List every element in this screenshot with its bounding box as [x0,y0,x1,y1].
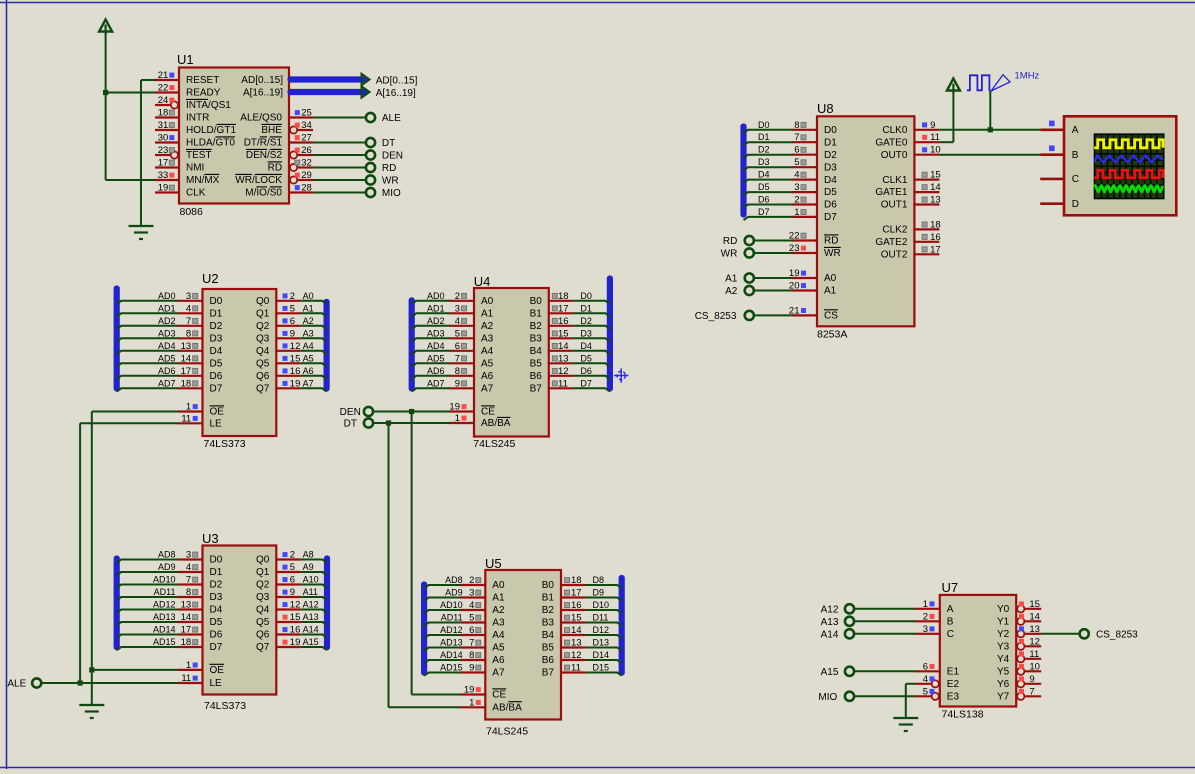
svg-text:9: 9 [455,378,460,389]
wire U3 Q5 to bus A13 [301,622,327,625]
wire AD9 bus to U3 D1 [117,572,179,575]
U2 pin 18 D7 (left) [158,378,223,394]
svg-text:A5: A5 [492,643,505,654]
svg-text:AD2: AD2 [158,316,176,326]
svg-text:E3: E3 [947,692,960,703]
svg-text:AD9: AD9 [445,588,463,598]
bus D0-D7 left of U8 [740,127,746,215]
U3 pin 14 D5 (left) [153,612,223,628]
U5 pin 16 B2 (right) [542,600,609,616]
svg-text:15: 15 [558,328,569,339]
svg-text:B2: B2 [530,321,543,332]
svg-text:8253A: 8253A [817,329,847,341]
U1 pin 19 CLK (left) [155,183,206,199]
svg-text:7: 7 [186,316,191,327]
svg-text:D2: D2 [210,321,223,332]
wire AD9 bus to U5 A1 [424,598,461,601]
wire VCC to U1 MN/MX pin 33 [106,179,155,181]
svg-text:6: 6 [455,341,460,352]
svg-text:Q3: Q3 [256,592,270,603]
svg-text:D0: D0 [210,296,223,307]
wire AD5 bus to U2 D5 [117,363,179,366]
svg-text:ALE/QS0: ALE/QS0 [240,113,282,124]
svg-text:18: 18 [571,575,582,586]
U5 pin 12 B6 (right) [542,650,609,666]
svg-text:D3: D3 [210,592,223,603]
wire AD2 bus to U2 D2 [117,326,179,329]
wire U5 B2 to bus D10 [586,610,622,613]
wire U2 Q7 to bus A7 [301,388,327,391]
svg-text:A1: A1 [303,303,314,313]
svg-text:A7: A7 [303,378,314,388]
oscilloscope body [1064,116,1176,215]
terminal A15 [821,667,854,678]
svg-text:AD11: AD11 [154,587,176,597]
U5 pin 4 A2 (left) [440,600,505,616]
U1 pin 21 RESET (left) [155,70,219,86]
wire AD2 bus to U4 A2 [412,326,450,329]
crosshair cursor marker [614,368,628,382]
svg-text:5: 5 [794,157,799,168]
svg-text:AD5: AD5 [158,353,176,363]
svg-text:A3: A3 [303,328,314,338]
svg-text:10: 10 [1029,661,1040,672]
net label D0 at U8 [758,120,770,130]
IC U4 (74LS245) body [474,288,549,437]
wire AD3 bus to U2 D3 [117,338,179,341]
U1 pin 22 READY (left) [155,83,221,99]
svg-text:A11: A11 [303,587,318,597]
wire AD8 bus to U5 A0 [424,585,461,588]
U2 pin 7 D2 (left) [158,316,223,332]
U3 pin 18 D7 (left) [153,637,223,653]
svg-text:12: 12 [558,366,569,377]
U1 pin 27 DT/R/S1 (right) [244,133,313,149]
U7 pin 3 C (left) [915,624,954,640]
U4 pin 19 CE (left) [449,402,495,418]
U7 pin 12 Y3 (right) [997,636,1041,652]
U8 value label 8253A [817,329,847,341]
U7 pin 4 E2 (left) [915,674,960,690]
svg-text:6: 6 [290,575,295,586]
wire U3 Q7 to bus A15 [301,647,327,650]
svg-text:AD7: AD7 [427,378,445,388]
svg-text:8: 8 [794,120,799,131]
svg-text:AD5: AD5 [427,353,445,363]
U3 pin 5 Q1 (right) [256,562,314,578]
svg-text:27: 27 [301,133,312,144]
wire VCC branch to U1 READY pin 22 [105,92,155,94]
svg-text:DT: DT [344,419,357,430]
svg-text:3: 3 [186,550,191,561]
svg-text:24: 24 [158,95,169,106]
U5 pin 5 A3 (left) [441,613,505,629]
svg-text:A2: A2 [303,316,314,326]
svg-text:Y6: Y6 [997,679,1010,690]
wire AD12 bus to U5 A4 [424,635,461,638]
svg-text:15: 15 [930,170,941,181]
svg-text:A0: A0 [492,580,505,591]
svg-text:CLK: CLK [186,188,206,199]
U8 pin 14 GATE1 (right) [875,182,940,198]
svg-text:11: 11 [930,132,940,143]
terminal ALE (bottom left) [7,678,41,689]
svg-text:A1: A1 [725,274,738,285]
svg-text:1: 1 [186,402,191,413]
svg-text:D6: D6 [758,195,770,205]
U3 pin 1 OE (left) [178,660,224,676]
svg-text:5: 5 [290,562,295,573]
wire RD terminal to U8 [754,240,792,242]
svg-text:A12: A12 [821,604,839,615]
svg-text:CLK2: CLK2 [882,225,907,236]
bus AD0-AD7 left of U2 [114,289,120,389]
U5 pin 2 A0 (left) [445,575,505,591]
svg-text:1: 1 [923,599,928,610]
U8 pin 23 WR (left) [789,243,841,259]
svg-text:D1: D1 [210,567,223,578]
svg-text:Q5: Q5 [256,359,270,370]
U3 pin 8 D3 (left) [154,587,223,603]
wire U5 B6 to bus D14 [586,660,622,663]
svg-text:17: 17 [158,158,169,169]
wire U4 B1 to bus D1 [573,313,610,316]
svg-text:U8: U8 [817,101,834,116]
wire D1 bus to U8 D1 [744,142,793,145]
svg-text:U3: U3 [202,531,219,546]
U3 pin 7 D2 (left) [153,575,223,591]
svg-text:B6: B6 [530,371,543,382]
wire U3 Q2 to bus A10 [301,585,327,588]
svg-text:RD: RD [268,163,282,174]
svg-text:Q0: Q0 [256,296,270,307]
svg-text:B2: B2 [542,605,555,616]
svg-text:A[16..19]: A[16..19] [243,88,283,99]
svg-text:A2: A2 [725,286,738,297]
U8 pin 4 D4 (left) [792,170,837,186]
U4 pin 8 A6 (left) [427,366,494,382]
U1 pin 32 RD (right) [268,158,313,174]
svg-text:33: 33 [158,170,169,181]
U7 pin 15 Y0 (right) [997,599,1041,615]
svg-text:DEN: DEN [340,407,361,418]
svg-text:14: 14 [181,353,192,364]
svg-text:A3: A3 [492,618,505,629]
svg-text:1: 1 [455,413,460,424]
svg-text:Q3: Q3 [256,334,270,345]
svg-text:D7: D7 [758,207,770,217]
svg-text:HOLD/GT1: HOLD/GT1 [186,125,236,136]
U7 pin 14 Y1 (right) [997,611,1041,627]
svg-text:D3: D3 [824,162,837,173]
svg-text:RESET: RESET [186,75,219,86]
U2 pin 3 D0 (left) [158,291,223,307]
svg-text:AD1: AD1 [427,303,445,313]
terminal ALE [366,113,401,124]
wire U1 RESET pin 21 to ground (horizontal) [141,79,155,81]
U5 pin 14 B4 (right) [542,625,609,641]
terminal WR at U8 [721,248,754,259]
svg-text:A5: A5 [481,359,494,370]
svg-text:Y4: Y4 [997,654,1010,665]
wire AD6 bus to U2 D6 [117,376,179,379]
svg-text:A0: A0 [303,291,314,301]
terminal DT [366,138,395,149]
svg-text:M/IO/S0: M/IO/S0 [245,188,282,199]
U5 pin 3 A1 (left) [445,588,505,604]
U7 pin 13 Y2 (right) [997,624,1041,640]
svg-text:D7: D7 [210,384,223,395]
U3 pin 6 Q2 (right) [256,575,319,591]
svg-text:19: 19 [464,685,475,696]
svg-text:D6: D6 [824,200,837,211]
svg-text:A: A [1072,125,1079,136]
U4 pin 3 A1 (left) [427,303,494,319]
svg-text:3: 3 [455,303,460,314]
svg-text:7: 7 [794,132,799,143]
svg-text:D13: D13 [593,638,610,648]
wire U5 B5 to bus D13 [586,648,622,651]
U3 pin 17 D6 (left) [153,625,223,641]
U3 pin 9 Q3 (right) [256,587,318,603]
sheet border frame top [0,2,1195,4]
svg-text:INTR: INTR [186,113,209,124]
U8 pin 13 OUT1 (right) [881,195,941,211]
wire AD11 bus to U5 A3 [424,623,461,626]
wire AD10 bus to U5 A2 [424,610,461,613]
svg-text:13: 13 [181,341,192,352]
oscilloscope input pin D [1040,199,1079,210]
svg-text:D12: D12 [593,625,610,635]
svg-text:5: 5 [290,303,295,314]
svg-text:2: 2 [290,291,295,302]
svg-text:17: 17 [181,366,192,377]
U8 pin 5 D3 (left) [792,157,837,173]
svg-text:Q2: Q2 [256,321,270,332]
svg-text:18: 18 [158,108,169,119]
svg-text:7: 7 [1029,686,1034,697]
svg-text:D9: D9 [593,588,605,598]
svg-text:GATE0: GATE0 [875,137,907,148]
wire U1 to terminal DEN [313,154,366,156]
svg-text:AD6: AD6 [158,366,176,376]
wire VCC vertical down to MN/MX net [105,32,107,180]
svg-text:AD10: AD10 [153,575,176,585]
U3 pin 13 D4 (left) [153,600,223,616]
wire U4 B2 to bus D2 [573,326,610,329]
svg-text:B: B [947,617,954,628]
wire AD13 bus to U5 A5 [424,648,461,651]
svg-text:2: 2 [469,575,474,586]
svg-text:D4: D4 [580,341,592,351]
svg-text:Q6: Q6 [256,371,270,382]
wire AD0 bus to U2 D0 [117,301,179,304]
svg-text:D0: D0 [580,291,592,301]
svg-text:5: 5 [923,686,928,697]
svg-text:AD4: AD4 [158,341,176,351]
svg-text:11: 11 [1029,649,1039,660]
svg-text:AD14: AD14 [440,650,463,660]
U3 pin 19 Q7 (right) [256,637,319,653]
bus terminal arrow A[16..19] [362,86,370,99]
ground symbol for OE net [79,705,104,718]
svg-text:28: 28 [301,183,312,194]
svg-text:AD13: AD13 [440,638,463,648]
svg-text:A10: A10 [303,575,319,585]
svg-text:WR: WR [721,249,738,260]
svg-text:9: 9 [290,587,295,598]
U3 reference label [202,531,219,546]
terminal MIO (near U7) [818,692,854,703]
wire A1 terminal to U8 [754,277,792,279]
IC U1 (8086) body [179,68,289,204]
svg-text:D2: D2 [580,316,592,326]
svg-text:D3: D3 [580,328,592,338]
wire U5 B7 to bus D15 [586,673,622,676]
wire D4 bus to U8 D4 [744,180,793,183]
svg-text:15: 15 [1029,599,1040,610]
clock generator symbol (square wave) [967,75,990,90]
wire U3 Q6 to bus A14 [301,635,327,638]
oscilloscope input pin B [1040,150,1079,161]
U1 pin 17 NMI (left) [155,158,204,174]
svg-text:AD4: AD4 [427,341,445,351]
svg-text:A13: A13 [821,617,839,628]
U5 reference label [485,556,502,571]
svg-text:AD15: AD15 [153,637,176,647]
svg-text:13: 13 [558,353,569,364]
svg-text:32: 32 [301,158,312,169]
svg-text:16: 16 [290,366,301,377]
U7 pin 7 Y7 (right) [997,686,1041,702]
svg-text:11: 11 [571,663,581,674]
svg-text:OUT1: OUT1 [881,200,908,211]
U2 pin 16 Q6 (right) [256,366,314,382]
U1 pin 30 HLDA/GT0 (left) [155,133,235,149]
svg-text:A2: A2 [492,605,505,616]
svg-text:1: 1 [186,660,191,671]
svg-text:DT: DT [382,138,395,149]
U7 pin 11 Y4 (right) [997,649,1041,665]
U2 reference label [202,271,219,286]
wire VCC down to GATE0 [939,91,953,142]
svg-text:C: C [947,629,954,640]
svg-text:WR/LOCK: WR/LOCK [235,175,282,186]
U1 pin 25 ALE/QS0 (right) [240,108,313,124]
svg-text:MIO: MIO [818,692,837,703]
U4 pin 15 B3 (right) [530,328,592,344]
svg-text:12: 12 [571,650,582,661]
U3 value label 74LS373 [204,700,246,712]
svg-text:A6: A6 [303,366,314,376]
junction OE-net at U3 OE [89,667,94,672]
U2 pin 12 Q4 (right) [256,341,314,357]
U8 pin 1 D7 (left) [792,207,837,223]
svg-text:NMI: NMI [186,163,204,174]
svg-text:INTA/QS1: INTA/QS1 [186,100,231,111]
U2 pin 1 OE (left) [178,402,224,418]
svg-text:GATE1: GATE1 [875,187,907,198]
svg-text:B4: B4 [542,630,555,641]
U4 pin 4 A2 (left) [427,316,494,332]
svg-text:CE: CE [481,407,495,418]
svg-text:15: 15 [571,613,582,624]
svg-text:D7: D7 [580,378,592,388]
wire A14 to U7 [854,633,915,635]
U7 pin 5 E3 (left) [915,686,960,702]
wire U8 CLK0 to scope channel A [939,129,1040,131]
svg-text:8: 8 [186,587,191,598]
wire U2 Q6 to bus A6 [301,376,327,379]
wire U8 OUT0 to scope channel B [939,154,1040,156]
svg-text:13: 13 [571,638,582,649]
wire WR terminal to U8 [754,252,792,254]
wire U3 OE horizontal [92,669,179,671]
wire U1 RESET to ground (vertical) [140,80,142,226]
U1 bus pin AD[0..15] name [241,75,283,86]
U8 reference label [817,101,834,116]
svg-text:AB/BA: AB/BA [492,703,522,714]
U1 pin 33 MN/MX (left) [155,170,220,186]
U3 pin 16 Q6 (right) [256,625,319,641]
svg-text:A4: A4 [303,341,314,351]
wire CS_8253 terminal to U8 [754,314,792,316]
U5 pin 1 AB/BA (left) [461,697,522,713]
svg-text:RD: RD [824,236,838,247]
svg-text:B3: B3 [542,618,555,629]
wire U1 to terminal MIO [313,192,366,194]
svg-text:8: 8 [455,366,460,377]
svg-text:D4: D4 [210,605,223,616]
svg-text:2: 2 [290,550,295,561]
svg-text:29: 29 [301,170,312,181]
svg-text:WR: WR [382,176,399,187]
svg-text:D6: D6 [580,366,592,376]
state square scope A input [1049,121,1055,127]
svg-text:8: 8 [186,328,191,339]
svg-text:CLK0: CLK0 [882,125,907,136]
svg-text:B7: B7 [530,384,543,395]
svg-text:GATE2: GATE2 [875,237,907,248]
wire U4 B6 to bus D6 [573,376,610,379]
U8 pin 11 GATE0 (right) [875,132,940,148]
U5 pin 17 B1 (right) [542,588,604,604]
svg-text:U1: U1 [177,52,194,67]
svg-text:4: 4 [794,170,799,181]
svg-text:6: 6 [923,661,928,672]
svg-text:D1: D1 [824,137,837,148]
svg-text:11: 11 [558,378,568,389]
oscilloscope screen [1094,133,1165,199]
svg-text:A: A [947,604,954,615]
svg-text:4: 4 [455,316,460,327]
svg-text:RD: RD [382,163,396,174]
svg-text:A3: A3 [481,334,494,345]
net label A[16..19] [376,88,416,99]
wire AD1 bus to U4 A1 [412,313,450,316]
svg-text:11: 11 [181,673,191,684]
U2 pin 19 Q7 (right) [256,378,314,394]
svg-text:DT/R/S1: DT/R/S1 [244,138,283,149]
junction at VCC/READY branch [103,90,108,95]
wire AD1 bus to U2 D1 [117,313,179,316]
terminal MIO [366,188,401,199]
U1 pin 34 BHE (right) [261,120,313,136]
wire U7 E2 to ground [906,684,916,718]
svg-text:OUT2: OUT2 [881,250,908,261]
svg-text:B0: B0 [542,580,555,591]
svg-text:MIO: MIO [382,188,401,199]
